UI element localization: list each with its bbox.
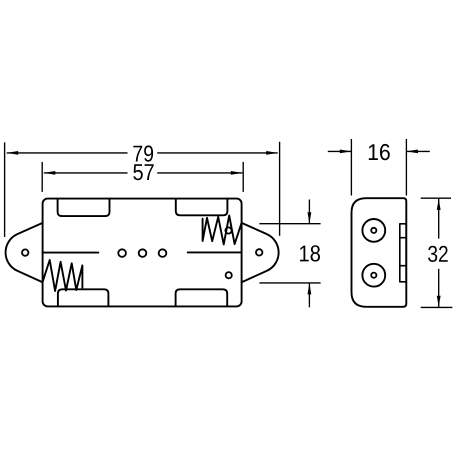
dim text 32 bbox=[428, 246, 448, 262]
dim 16 extension line right bbox=[405, 139, 407, 196]
bottom-right battery cutout bbox=[176, 289, 228, 306]
center hole 3 bbox=[159, 249, 167, 257]
right mounting ear bbox=[242, 223, 279, 282]
dim 18 arrow stem top bbox=[308, 200, 310, 224]
dim 32 extension line top bbox=[421, 197, 451, 199]
left ear hole bbox=[22, 249, 28, 255]
dim 32 extension line bottom bbox=[421, 306, 453, 308]
dim 57 arrowhead left bbox=[44, 171, 56, 175]
dim 79 extension line left bbox=[4, 142, 6, 237]
middle divider line left segment bbox=[43, 252, 99, 254]
dim 18 extension line top bbox=[259, 223, 320, 225]
dim 16 arrowhead right bbox=[406, 150, 418, 154]
dim 57 arrowhead right bbox=[231, 171, 243, 175]
dim 32 arrowhead top bbox=[437, 199, 441, 211]
dim 57 extension line right bbox=[242, 162, 244, 192]
side view upper contact inner circle bbox=[371, 228, 376, 233]
side view upper contact outer circle bbox=[362, 219, 385, 242]
dim 57 extension line left bbox=[41, 162, 43, 192]
middle divider line right segment bbox=[188, 251, 242, 253]
left mounting ear bbox=[6, 223, 43, 282]
clip divider upper bbox=[400, 237, 406, 239]
bottom-left spring bbox=[43, 260, 83, 291]
clip divider lower bbox=[400, 265, 406, 267]
dim 32 arrowhead bottom bbox=[437, 296, 441, 308]
dim text 57 bbox=[133, 164, 153, 180]
dim 18 extension line bottom bbox=[259, 282, 320, 284]
dim 16 arrow stem left bbox=[328, 150, 352, 152]
dim text 16 bbox=[369, 144, 390, 160]
top-right battery cutout bbox=[176, 199, 228, 215]
top-left battery cutout bbox=[58, 199, 110, 216]
top-right spring bbox=[203, 215, 242, 244]
dim 16 extension line left bbox=[350, 139, 352, 196]
side view contact plate clip bbox=[400, 224, 406, 282]
bottom-left battery cutout bbox=[58, 289, 109, 306]
dim 32 line top segment bbox=[438, 199, 440, 239]
dim text 79 bbox=[133, 145, 153, 161]
side view body bbox=[352, 198, 407, 307]
dim 79 extension line right bbox=[279, 142, 281, 236]
dim 18 arrowhead top bbox=[308, 212, 312, 224]
rivet hole lower right bbox=[226, 272, 232, 278]
dim 57 line right segment bbox=[157, 172, 242, 174]
center hole 1 bbox=[118, 249, 126, 257]
right ear hole bbox=[256, 249, 262, 255]
dim 79 arrowhead right bbox=[266, 151, 278, 155]
dim 57 line left segment bbox=[44, 172, 128, 174]
dim 79 arrowhead left bbox=[7, 151, 19, 155]
rivet hole on top-right spring bbox=[225, 227, 231, 233]
dim 32 line bottom segment bbox=[438, 269, 440, 307]
dim 18 arrow stem bottom bbox=[308, 283, 310, 307]
dim 16 arrow stem right bbox=[406, 150, 429, 152]
center hole 2 bbox=[139, 249, 147, 257]
dim text 18 bbox=[300, 245, 320, 261]
dim 16 arrowhead left bbox=[340, 150, 352, 154]
side view lower contact outer circle bbox=[362, 264, 385, 287]
battery holder body (front view) bbox=[43, 199, 242, 307]
dim 18 arrowhead bottom bbox=[308, 283, 312, 295]
dim 79 line right segment bbox=[157, 152, 278, 154]
dim 79 line left segment bbox=[7, 152, 128, 154]
side view lower contact inner circle bbox=[371, 273, 376, 278]
